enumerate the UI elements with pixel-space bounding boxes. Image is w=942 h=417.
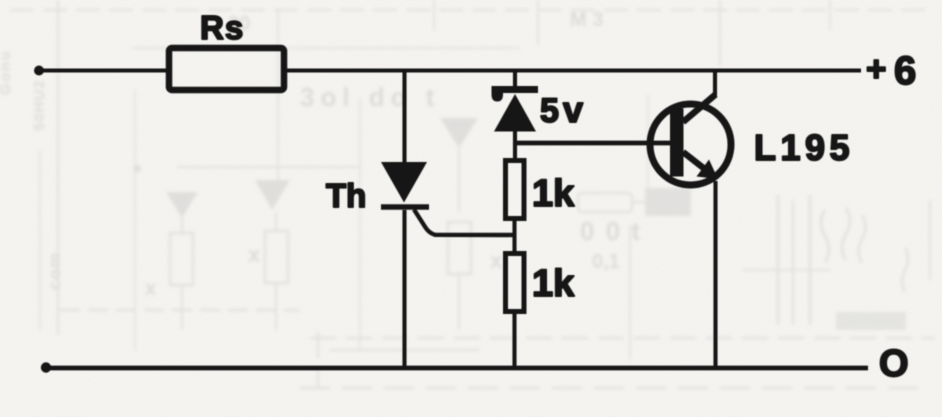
svg-text:Gonu: Gonu (0, 50, 14, 95)
svg-text:Th: Th (326, 177, 366, 214)
svg-text:*: * (133, 160, 142, 185)
svg-text:0,1: 0,1 (592, 251, 620, 273)
svg-text:x: x (145, 278, 156, 300)
svg-text:3ol do t: 3ol do t (300, 82, 440, 112)
svg-text:Rs: Rs (200, 9, 244, 46)
svg-text:v: v (563, 89, 583, 130)
svg-text:+: + (866, 50, 886, 89)
svg-text:1k: 1k (532, 263, 575, 305)
svg-text:1k: 1k (532, 173, 575, 215)
svg-text:5: 5 (540, 92, 559, 130)
svg-text:x: x (248, 242, 261, 267)
svg-text:O: O (879, 343, 909, 385)
svg-text:x: x (490, 248, 503, 273)
svg-text:M 3: M 3 (570, 9, 603, 31)
svg-text:50HU2: 50HU2 (31, 79, 48, 131)
svg-text:L195: L195 (754, 127, 854, 168)
svg-text:0 0 t: 0 0 t (580, 216, 642, 246)
svg-text:6: 6 (894, 49, 916, 93)
svg-text:com: com (45, 252, 64, 290)
